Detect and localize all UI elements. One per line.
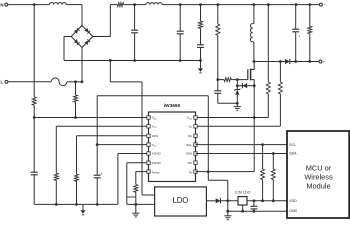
svg-text:N: N bbox=[0, 2, 3, 7]
svg-text:GND: GND bbox=[289, 209, 297, 213]
svg-text:SCL: SCL bbox=[186, 143, 192, 147]
svg-text:+: + bbox=[298, 34, 300, 38]
svg-text:PGND: PGND bbox=[152, 161, 162, 165]
svg-text:SCL: SCL bbox=[289, 143, 296, 147]
svg-text:3.3V LDO: 3.3V LDO bbox=[235, 191, 251, 195]
svg-text:AGND: AGND bbox=[152, 152, 162, 156]
svg-text:SDA: SDA bbox=[289, 152, 297, 156]
svg-text:SDA: SDA bbox=[186, 152, 192, 156]
svg-text:+: + bbox=[100, 172, 102, 176]
svg-text:Wireless: Wireless bbox=[304, 173, 333, 182]
svg-text:LDO: LDO bbox=[172, 196, 188, 205]
svg-text:VDD: VDD bbox=[289, 199, 297, 203]
svg-text:L: L bbox=[1, 80, 4, 85]
svg-text:MCU or: MCU or bbox=[306, 164, 332, 173]
svg-text:CFG: CFG bbox=[152, 134, 159, 138]
svg-text:Module: Module bbox=[306, 182, 330, 191]
svg-text:iW3690: iW3690 bbox=[164, 103, 181, 109]
